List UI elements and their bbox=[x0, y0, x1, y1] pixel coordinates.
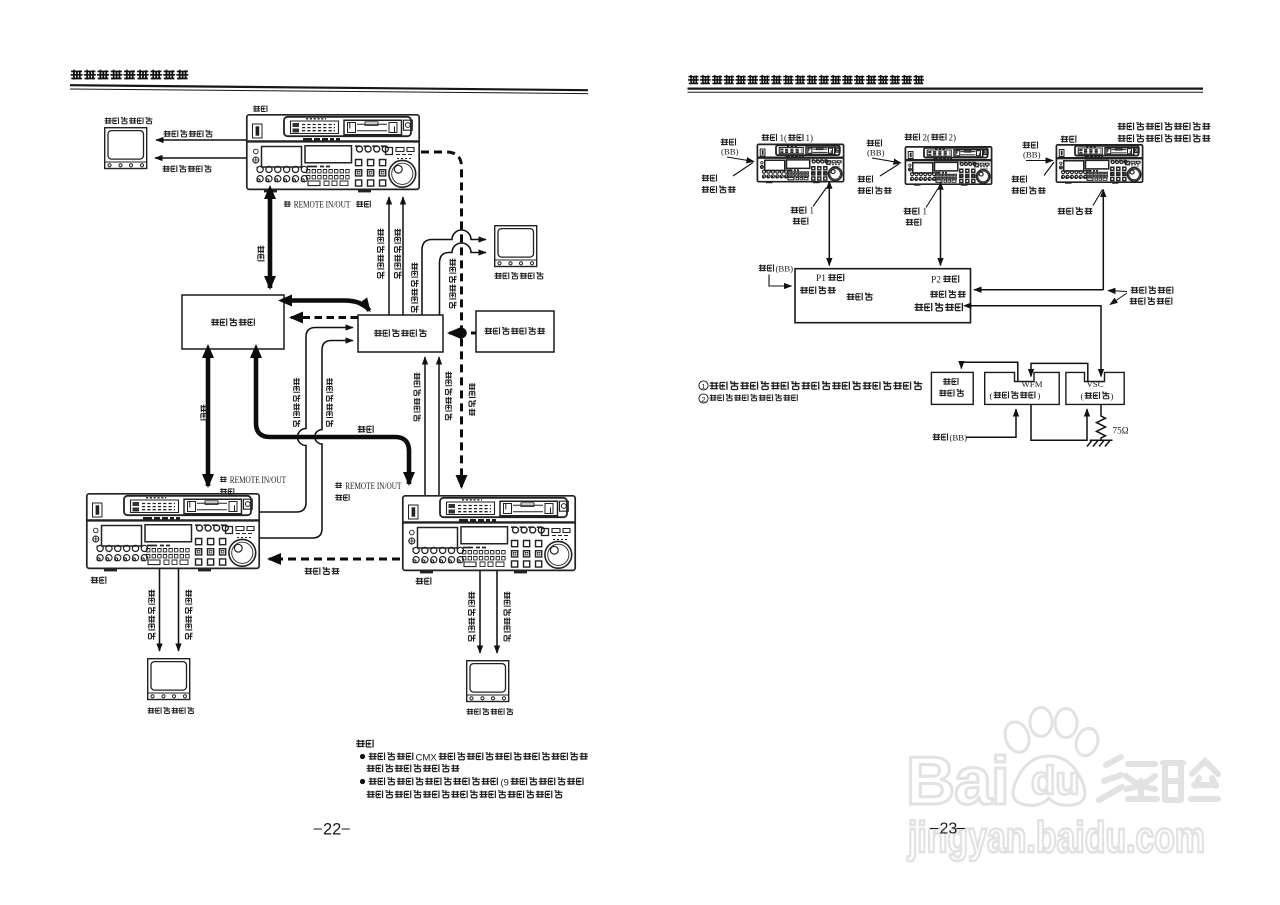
wire: remote thick arrow controller-source1 bbox=[206, 356, 211, 486]
label: reference signal (vertical) bbox=[469, 383, 476, 416]
label: reference BB bottom bbox=[933, 433, 948, 440]
svg-text:(: ( bbox=[1081, 391, 1084, 401]
svg-text:–: – bbox=[314, 820, 323, 837]
wire: WFM->VSC bottom loop bbox=[1031, 404, 1087, 440]
label: monitor output bbox=[914, 303, 962, 311]
label: audio output signal v1 bbox=[326, 378, 333, 427]
label: bracket note line2 bbox=[1118, 134, 1211, 142]
svg-text:2(: 2( bbox=[923, 133, 931, 143]
wire: BB to WFM bbox=[967, 409, 1017, 437]
note line 1 bbox=[369, 752, 413, 760]
note 2 circled bbox=[699, 394, 708, 403]
VSC box bbox=[1066, 372, 1124, 404]
label: audio listen signal bl bbox=[185, 590, 192, 640]
wire: remote thick arrow recorder-controller bbox=[268, 197, 273, 288]
note line 4 bbox=[367, 790, 563, 798]
svg-text:(BB): (BB) bbox=[1023, 150, 1041, 160]
label: P1 input bbox=[828, 274, 844, 281]
label: vectorscope bbox=[1085, 392, 1110, 399]
label: audio listen signal br bbox=[504, 592, 511, 642]
label+line: reference video input 2 bbox=[858, 175, 873, 182]
label: video output signal v2 bbox=[414, 373, 421, 422]
svg-text:(BB): (BB) bbox=[867, 148, 885, 158]
wire: monitor output bbox=[971, 306, 1102, 364]
wire: audio monitor signal bbox=[155, 157, 246, 159]
label: switcher bbox=[847, 293, 873, 301]
svg-text:REMOTE IN/OUT: REMOTE IN/OUT bbox=[230, 476, 286, 486]
callout lines bbox=[1108, 291, 1127, 292]
wire: video monitor signal bbox=[156, 139, 246, 141]
wire: dashed reference source2->source1 bbox=[269, 558, 400, 561]
recorder VCR right page bbox=[1056, 145, 1142, 184]
svg-text:du: du bbox=[1031, 759, 1080, 803]
wire: to bottom-left monitor v bbox=[159, 568, 161, 651]
label: recorder rp bbox=[1061, 135, 1076, 142]
label: source VCR 1 bbox=[91, 576, 106, 583]
ground bbox=[1087, 440, 1113, 446]
label: player1(source1) bbox=[762, 134, 777, 141]
label: recorder bbox=[253, 105, 267, 112]
note 1 circled bbox=[699, 381, 708, 390]
label: source VCR 2 bbox=[416, 577, 431, 584]
note heading bbox=[356, 740, 373, 748]
svg-text:REMOTE IN/OUT: REMOTE IN/OUT bbox=[294, 200, 351, 210]
label+arrow: reference BB 3 bbox=[1023, 141, 1038, 148]
watermark baidu jingyan bbox=[906, 708, 1218, 820]
svg-text:–: – bbox=[957, 820, 966, 837]
label: AV monitor 2 bbox=[495, 272, 544, 279]
note l2 bbox=[1130, 297, 1172, 304]
svg-text:CMX: CMX bbox=[416, 752, 438, 763]
label: video input rp bbox=[1058, 207, 1093, 214]
recorder VCR (top) bbox=[247, 115, 419, 193]
svg-text:(: ( bbox=[990, 391, 993, 401]
wire: audio output signal source2->switcher bbox=[438, 357, 440, 495]
wire: audio output signal source1->switcher bbox=[260, 341, 353, 539]
label+line: reference video input 1 bbox=[702, 174, 717, 181]
AV monitor top-right bbox=[495, 226, 537, 267]
svg-text:2: 2 bbox=[701, 395, 705, 404]
player VCR 1 bbox=[757, 144, 843, 183]
wire: dashed generator to dot bbox=[468, 332, 476, 335]
wire: dashed arrow switcher to controller bbox=[291, 316, 358, 319]
svg-text:–: – bbox=[930, 820, 939, 837]
label: video1 out p2 bbox=[904, 207, 919, 214]
WFM box bbox=[985, 372, 1059, 404]
label: recorder output bbox=[930, 290, 966, 298]
wire: video input recorder line bbox=[1102, 190, 1104, 291]
label: AV monitor br bbox=[466, 708, 513, 715]
AV monitor top-left bbox=[105, 128, 147, 169]
note line 3 bbox=[369, 777, 498, 785]
label: bracket note line1 bbox=[1118, 122, 1211, 130]
note right 1 bbox=[710, 381, 923, 389]
note right 2 bbox=[709, 394, 797, 401]
wire: video1 out player2->switcher bbox=[940, 189, 942, 266]
wire: remote thick curve controller-source2 bbox=[256, 356, 409, 484]
wire: WFM->TV loop bbox=[961, 362, 1017, 381]
svg-text:2): 2) bbox=[949, 133, 957, 143]
label: TV bbox=[943, 378, 958, 385]
wire: thick arrow controller-switcher bbox=[290, 301, 370, 311]
label: to REMOTE IN/OUT (source2) bbox=[335, 482, 342, 488]
label: video monitor signal (vertical) bbox=[411, 263, 418, 313]
edit controller box bbox=[182, 295, 284, 349]
note: make these two cables same length l1 bbox=[1131, 286, 1173, 293]
TV monitor box bbox=[931, 372, 973, 404]
label: AV listen signal bbox=[163, 165, 212, 172]
label: reference signal generator bbox=[485, 327, 546, 334]
label+arrow: reference BB 1 bbox=[721, 138, 736, 145]
AV monitor bottom-left bbox=[148, 659, 190, 700]
wire: audio input signal bbox=[402, 197, 404, 315]
source VCR 1 bbox=[87, 494, 259, 572]
label+arrow: reference BB 2 bbox=[867, 139, 882, 146]
label: video monitor signal bl bbox=[148, 590, 155, 640]
node: reference junction dot bbox=[456, 328, 467, 339]
svg-text:–: – bbox=[342, 820, 351, 837]
wire: recorder output bbox=[974, 289, 1103, 291]
svg-text:1: 1 bbox=[810, 206, 815, 216]
svg-text:): ) bbox=[1038, 391, 1041, 401]
svg-text:VSC: VSC bbox=[1087, 379, 1104, 389]
svg-text:(BB): (BB) bbox=[721, 147, 739, 157]
label: video output signal v1 bbox=[293, 378, 300, 427]
reference signal generator box bbox=[476, 311, 554, 352]
note line 2 bbox=[367, 764, 460, 772]
label: remote (vertical) bbox=[257, 246, 264, 261]
resistor 75ohm bbox=[1097, 404, 1106, 440]
wire: BB into switcher bbox=[769, 275, 792, 287]
label: video monitor signal bbox=[164, 130, 213, 137]
label: edit controller bbox=[211, 318, 254, 326]
wire: to bottom-left monitor a bbox=[178, 568, 180, 651]
svg-text:Bai: Bai bbox=[906, 743, 1009, 819]
svg-text:1(: 1( bbox=[780, 133, 788, 143]
title 2: video output signal adjust connection bbox=[688, 75, 924, 84]
label: to REMOTE IN/OUT (source1) bbox=[220, 476, 227, 482]
wire: video1 out player1->switcher bbox=[828, 188, 830, 266]
label: waveform monitor bbox=[994, 391, 1035, 398]
source VCR 2 bbox=[403, 496, 575, 574]
label: remote (vertical) lower bbox=[200, 405, 207, 420]
svg-text:P2: P2 bbox=[931, 276, 941, 286]
wire: VSC incoming bbox=[1100, 364, 1102, 377]
AV switcher box bbox=[358, 315, 443, 352]
label: reference input bbox=[800, 286, 836, 294]
label: audio output signal v2 bbox=[445, 372, 452, 421]
svg-text:(BB): (BB) bbox=[776, 264, 794, 274]
player VCR 2 bbox=[905, 147, 991, 186]
label: AV switcher bbox=[374, 329, 427, 336]
label: player2(source2) bbox=[905, 133, 920, 140]
label: monitor bbox=[939, 389, 964, 396]
svg-text:1: 1 bbox=[923, 207, 928, 217]
svg-text:1): 1) bbox=[806, 133, 814, 143]
title2 double rule bbox=[688, 87, 1204, 89]
label: video1 out p1 bbox=[791, 206, 806, 213]
label: reference BB box bbox=[759, 264, 774, 271]
label: reference signal bottom bbox=[305, 567, 340, 574]
svg-text:P1: P1 bbox=[816, 274, 826, 284]
label: video monitor signal br bbox=[468, 592, 475, 642]
svg-text:75Ω: 75Ω bbox=[1113, 426, 1129, 436]
label: video input signal (vertical) bbox=[377, 229, 384, 279]
label: to REMOTE IN/OUT port bbox=[284, 201, 291, 207]
wire: video input signal bbox=[388, 197, 390, 315]
label: AV monitor bbox=[104, 117, 152, 124]
wire: audio listen signal to monitor2 bbox=[440, 243, 487, 315]
svg-text:23: 23 bbox=[940, 821, 958, 838]
switcher box right page bbox=[795, 269, 971, 323]
svg-text:22: 22 bbox=[323, 821, 341, 839]
svg-text:(BB): (BB) bbox=[950, 433, 968, 443]
wire: video output signal source1->switcher bbox=[260, 328, 353, 513]
svg-text:REMOTE IN/OUT: REMOTE IN/OUT bbox=[345, 482, 401, 492]
label: audio listen signal (vertical) bbox=[449, 259, 456, 309]
wire: to bottom-right monitor a bbox=[496, 571, 498, 653]
wire: VSC->WFM loop bbox=[1031, 363, 1088, 381]
label+line: reference video input 3 bbox=[1012, 175, 1027, 182]
svg-text:1: 1 bbox=[701, 382, 705, 391]
label: audio input signal (vertical) bbox=[394, 229, 401, 279]
wire: dashed dot to switcher bbox=[449, 332, 455, 335]
AV monitor bottom-right bbox=[467, 661, 509, 702]
wire: dashed reference line vertical bbox=[421, 152, 462, 487]
svg-text:WFM: WFM bbox=[1022, 379, 1043, 389]
label: AV monitor bl bbox=[147, 707, 194, 714]
title double rule bbox=[70, 85, 588, 90]
wire: video output signal source2->switcher bbox=[424, 357, 426, 495]
svg-text:): ) bbox=[1111, 391, 1114, 401]
wire: video monitor signal to monitor2 bbox=[422, 230, 486, 315]
svg-text:(9: (9 bbox=[501, 776, 509, 787]
wire: to bottom-right monitor v bbox=[479, 571, 481, 653]
label: remote (horizontal) bbox=[358, 425, 374, 432]
label: P2 input bbox=[943, 275, 959, 282]
title: connection with edit controller bbox=[71, 70, 189, 80]
